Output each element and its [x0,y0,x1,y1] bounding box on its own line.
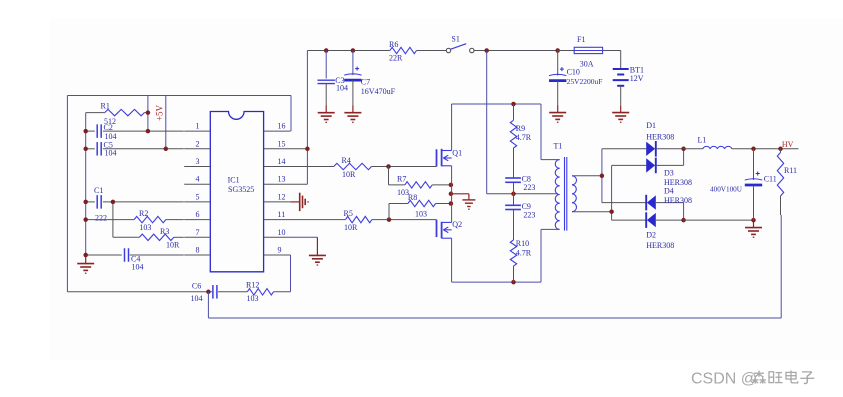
svg-text:2: 2 [196,139,200,148]
watermark CJK text [752,370,814,383]
capacitor C6 [67,282,247,303]
pin 1 [184,122,210,132]
node C7 top [351,48,356,53]
wire Q1 drain [451,104,453,151]
svg-text:223: 223 [523,183,535,192]
svg-text:T1: T1 [554,142,563,151]
wire pin14 to R4 [291,166,334,168]
fuse F1 [574,35,602,69]
svg-text:C11: C11 [764,175,777,184]
watermark CSDN [691,370,757,387]
svg-text:R2: R2 [139,209,148,218]
svg-text:7: 7 [196,228,200,237]
node left R2 [83,217,88,222]
capacitor C3 [318,51,349,113]
pin 10 [264,228,291,238]
resistor R4 [334,156,389,179]
ground C11 [745,220,762,237]
svg-text:104: 104 [105,149,117,158]
node S1 output [484,48,489,53]
wire box bottom [452,281,541,283]
wire outer-left vertical [66,96,68,292]
svg-text:6: 6 [196,210,200,219]
svg-text:R11: R11 [784,166,797,175]
svg-text:S1: S1 [451,35,459,44]
ground C10 [549,113,566,123]
pin 5 [184,192,210,202]
node secondary bottom [609,209,614,214]
wire R11 bottom riser [780,215,782,318]
svg-text:4.7R: 4.7R [516,248,532,257]
svg-text:4.7R: 4.7R [516,133,532,142]
svg-text:103: 103 [415,210,427,219]
svg-text:HER308: HER308 [664,196,692,205]
svg-text:8: 8 [196,246,200,255]
capacitor C1 [86,186,184,222]
wire neg rail to C11 [684,219,754,221]
svg-text:D2: D2 [646,231,656,240]
resistor R5 [344,209,390,232]
resistor R2 [86,209,184,232]
resistor R10 [510,239,532,282]
svg-text:11: 11 [278,210,286,219]
node rectifier minus [681,218,686,223]
pin 15 [264,139,291,149]
svg-text:R4: R4 [342,156,351,165]
svg-text:400V100U: 400V100U [710,185,743,193]
svg-text:22R: 22R [389,54,403,63]
pin 13 [264,175,291,185]
node R1-right [146,110,151,115]
svg-text:12V: 12V [630,74,644,83]
wire R8 riser [388,204,390,220]
net label HV [782,140,794,149]
battery BT1 [613,66,644,113]
capacitor C2 [86,123,184,141]
node +5V pin2 [164,147,169,152]
svg-text:R7: R7 [397,174,406,183]
node left C5 [83,147,88,152]
transformer T1 secondary winding [572,176,576,212]
resistor R8 [389,193,451,219]
svg-text:5: 5 [196,192,200,201]
node C2-row/R1 [146,129,151,134]
diode D1 [602,121,684,157]
svg-text:10R: 10R [342,170,356,179]
svg-text:12: 12 [278,192,286,201]
capacitor C9 [505,194,535,240]
ground pin10 [291,237,326,265]
wire sec-top riser [601,149,603,203]
svg-text:HV: HV [782,140,794,149]
wire primary bottom lead [541,228,560,230]
transformer T1 core [565,157,567,231]
wire D4 drop [683,203,685,221]
wire pin13 to riser [291,183,308,185]
svg-text:30A: 30A [580,60,594,69]
svg-text:R3: R3 [160,227,169,236]
wire +5V top rail [67,95,291,97]
svg-text:C6: C6 [192,282,201,291]
ground Q1/Q2 source [451,194,476,209]
wire sec-bottom riser [611,165,613,220]
net label +5V [155,104,165,121]
ground C7 [344,113,361,123]
pin 9 [264,246,291,256]
wire R5 to Q2 gate [389,219,437,221]
wire primary top lead [541,159,560,161]
svg-text:104: 104 [336,83,348,92]
svg-text:+5V: +5V [155,104,165,121]
node pin15 junction [305,147,310,152]
pin 4 [184,175,210,185]
wire top rail left [307,50,390,52]
svg-text:C1: C1 [94,186,103,195]
pin 14 [264,157,291,167]
svg-text:9: 9 [278,246,282,255]
svg-text:D1: D1 [646,121,656,130]
svg-text:R12: R12 [246,280,259,289]
capacitor C11 [710,149,777,220]
svg-text:HER308: HER308 [646,241,674,250]
svg-text:Q2: Q2 [452,220,462,229]
ground (left rail) [77,255,94,273]
wire BT1 top lead [620,51,622,70]
capacitor C7 [344,51,395,113]
svg-text:L1: L1 [698,135,707,144]
svg-text:C10: C10 [567,67,580,76]
resistor R3 [113,227,184,250]
svg-text:25V2200uF: 25V2200uF [567,77,603,86]
diode D4 [602,187,692,211]
node R4 out [386,164,391,169]
wire secondary top lead [572,175,602,177]
svg-text:R10: R10 [516,239,529,248]
svg-text:F1: F1 [577,35,585,44]
svg-text:Q1: Q1 [452,149,462,158]
resistor R7 [389,174,451,197]
wire primary bottom riser [540,229,542,282]
svg-text:16: 16 [278,122,286,131]
wire Q2 source down [451,238,453,282]
wire inner-left vertical [85,113,87,255]
wire L1 to HV [732,148,799,150]
wire +5V drop to pin2 net [165,96,167,149]
node left C1 [83,200,88,205]
pin 16 [264,122,291,132]
capacitor C5 [86,141,184,158]
node C1/R3 [111,200,116,205]
svg-text:HER308: HER308 [646,133,674,142]
svg-text:SG3525: SG3525 [228,185,254,194]
svg-text:10: 10 [278,228,286,237]
wire R7 drop [388,167,390,185]
transformer T1 primary winding [554,142,563,230]
switch S1 [446,35,474,53]
wire C10 to F1 [558,50,575,52]
node left C4 [83,253,88,258]
svg-text:104: 104 [132,263,144,272]
svg-text:R6: R6 [389,40,398,49]
svg-text:104: 104 [191,294,203,303]
svg-text:CSDN @: CSDN @ [691,370,757,387]
wire R11 lead lower [780,196,782,215]
svg-text:14: 14 [278,157,286,166]
svg-text:D4: D4 [664,187,674,196]
node bottom drop [206,290,211,295]
wire R4 to Q1 gate [389,166,437,168]
node rectifier plus [681,147,686,152]
node R10 bottom [511,280,516,285]
resistor R6 [389,40,417,63]
diode D2 [612,212,684,250]
node C3 top [324,48,329,53]
svg-text:C7: C7 [361,77,370,86]
pin 6 [184,210,210,220]
resistor R1 [86,101,148,126]
capacitor C4 [86,248,184,271]
svg-text:13: 13 [278,175,286,184]
wire center tap row [487,193,558,195]
svg-text:R1: R1 [101,101,110,110]
pin 8 [184,246,210,256]
wire secondary bottom lead [572,211,612,213]
node R9 top [511,102,516,107]
wire bottom rail [208,317,781,319]
wire R6 to S1 [417,50,447,52]
diode D3 [612,158,692,188]
svg-text:223: 223 [523,211,535,220]
wire F1 to BT1 [603,50,621,52]
wire rail riser x307 [306,51,308,185]
node left C2 [83,129,88,134]
wire bottom drop [207,292,209,318]
wire pin11 to R5 [291,219,346,221]
ground BT1 [612,113,629,123]
capacitor C8 [505,175,535,194]
svg-text:15: 15 [278,139,286,148]
capacitor C10 [549,51,602,113]
transistor Q1 [437,149,463,167]
svg-text:D3: D3 [664,169,674,178]
ground pin12 (sideways) [291,193,309,211]
svg-text:222: 222 [95,214,107,223]
svg-text:10R: 10R [344,223,358,232]
svg-text:IC1: IC1 [228,176,240,185]
node HV/R11 [778,147,783,152]
wire pin16 riser [290,96,292,132]
wire R1-right drop [147,96,149,132]
node C10 top [555,48,560,53]
svg-text:R9: R9 [516,124,525,133]
IC IC1 SG3525 [210,112,263,272]
node C11 top [751,147,756,152]
svg-text:10R: 10R [166,241,180,250]
inductor L1 [698,135,732,149]
node secondary top [600,174,605,179]
pin 11 [264,210,291,220]
wire rect to L1 [684,148,703,150]
node source ground [449,192,454,197]
svg-text:3: 3 [196,157,200,166]
resistor R9 [510,104,532,178]
wire Q1 source to Q2 drain [451,166,453,223]
wire S1 to C10 [474,50,558,52]
resistor R11 [777,149,797,196]
pin 2 [184,139,210,149]
pin 12 [264,192,291,202]
svg-text:4: 4 [196,175,200,184]
svg-text:R8: R8 [408,193,417,202]
svg-text:103: 103 [247,294,259,303]
resistor R12 [246,280,291,303]
wire D3 riser [683,149,685,166]
node C11 bottom [751,218,756,223]
pin 3 [184,157,210,167]
wire S1 drop [486,51,488,194]
svg-text:103: 103 [139,223,151,232]
wire pin9 down [290,255,292,292]
svg-text:16V470uF: 16V470uF [361,87,396,96]
ground C3 [318,113,335,123]
svg-text:104: 104 [105,132,117,141]
node C8/C9 mid [511,192,516,197]
svg-text:R5: R5 [344,209,353,218]
svg-text:1: 1 [196,122,200,131]
transistor Q2 [437,220,463,239]
wire pin15 to riser [291,148,308,150]
node R8 out [449,201,454,206]
wire box top [452,103,541,105]
node R7 out [449,183,454,188]
wire primary top riser [540,104,542,160]
pin 7 [184,228,210,238]
node R5 out [387,217,392,222]
wire C1 to R3 drop [112,202,114,237]
